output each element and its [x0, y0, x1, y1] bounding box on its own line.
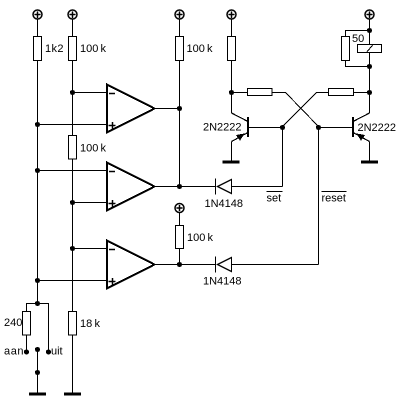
- wire: R2 to R5 divider: [72, 61, 74, 136]
- svg-text:100 k: 100 k: [187, 43, 214, 55]
- wire: switch pole to ground: [37, 350, 39, 393]
- wire: V+ B to R2: [72, 19, 74, 36]
- wire: V+ C to R3: [179, 19, 181, 36]
- resistor R3 100k: [176, 37, 184, 61]
- wire: op3 output stub: [155, 264, 180, 266]
- wire: relay to Q2 collector: [369, 53, 371, 114]
- wire: R9 240 to aan contact: [26, 335, 28, 352]
- label reset with overline: [322, 192, 347, 205]
- wire: Rh1 right lead: [272, 92, 286, 94]
- wire: op2 minus input row: [38, 170, 108, 172]
- wire: cross diagonal right-to-left: [283, 93, 317, 127]
- transistor Q2 2N2222: [353, 113, 370, 161]
- wire: output rail: [179, 61, 181, 187]
- svg-text:1N4148: 1N4148: [203, 276, 242, 288]
- svg-text:240: 240: [4, 317, 22, 329]
- label set with overline: [267, 192, 283, 205]
- node: op1 minus junction: [70, 90, 75, 95]
- node: Q1 collector junction: [229, 90, 234, 95]
- resistor R2 100k: [69, 37, 77, 61]
- wire: switch feed split left: [27, 304, 38, 312]
- node: relay bottom junction: [367, 64, 372, 69]
- wire: op2 plus input row: [73, 202, 108, 204]
- wire: V+ A to R1: [37, 19, 39, 36]
- node: op2 output junction: [177, 184, 182, 189]
- node: Q2 base junction: [316, 125, 321, 130]
- node: op2 plus junction: [70, 200, 75, 205]
- wire: V+ D to R4: [231, 19, 233, 36]
- svg-text:100 k: 100 k: [80, 143, 107, 155]
- svg-text:1k2: 1k2: [45, 43, 64, 55]
- node: op3 minus junction: [70, 246, 75, 251]
- node: Q2 collector junction: [367, 90, 372, 95]
- op-amp U1: [107, 85, 155, 133]
- power symbol V+ B: [68, 10, 77, 19]
- wire: set vertical: [282, 128, 284, 187]
- wire: op2 output stub: [155, 186, 180, 188]
- resistor R8 18k: [69, 312, 77, 336]
- wire: op1 output stub: [155, 108, 180, 110]
- wire: left sense rail: [37, 61, 39, 304]
- node: Q1 base junction: [280, 125, 285, 130]
- wire: D1 to set corner: [232, 186, 283, 188]
- svg-text:aan: aan: [4, 346, 24, 358]
- wire: divider rail mid: [72, 159, 74, 312]
- svg-text:set: set: [267, 193, 282, 205]
- svg-text:uit: uit: [51, 346, 63, 358]
- resistor R4: [228, 37, 236, 61]
- svg-text:2N2222: 2N2222: [203, 122, 242, 134]
- resistor Rh2 cross-coupling: [329, 89, 354, 96]
- node: op3 output junction: [177, 262, 182, 267]
- resistor R9 240: [23, 312, 31, 336]
- wire: op1 minus input row: [73, 92, 108, 94]
- svg-text:100 k: 100 k: [187, 232, 214, 244]
- wire: node op3 out to D2: [180, 264, 216, 266]
- resistor R10 50: [342, 37, 350, 61]
- ground Q2: [361, 161, 378, 164]
- power symbol V+ E: [365, 10, 374, 19]
- wire: D2 to reset corner: [232, 264, 319, 266]
- svg-text:1N4148: 1N4148: [205, 198, 244, 210]
- node: op1 plus junction: [35, 122, 40, 127]
- svg-text:reset: reset: [322, 193, 346, 205]
- wire: op1 plus input row: [38, 124, 108, 126]
- diode D2 1N4148: [216, 257, 232, 273]
- resistor Rh1 cross-coupling: [248, 89, 273, 96]
- switch S1 pole top: [35, 347, 40, 352]
- wire: R8 18k to ground: [72, 335, 74, 393]
- wire: V+ F to R7: [179, 213, 181, 226]
- wire: reset vertical: [318, 128, 320, 265]
- op-amp U3: [107, 241, 155, 289]
- op-amp U2: [107, 163, 155, 211]
- switch S1 pole bottom: [35, 370, 40, 375]
- svg-text:50: 50: [352, 33, 364, 45]
- transistor Q1 2N2222: [232, 113, 249, 161]
- node: op1 output junction: [177, 106, 182, 111]
- power symbol V+ A: [33, 10, 42, 19]
- wire: V+ E down right rail: [369, 19, 371, 44]
- node: op2 minus junction: [35, 168, 40, 173]
- wire: Rh2 right lead: [354, 92, 370, 94]
- wire: Q1 collector node to Rh1: [232, 92, 248, 94]
- wire: relay branch top: [346, 31, 370, 37]
- wire: Q2 base: [319, 127, 353, 129]
- wire: node out to D1: [180, 186, 216, 188]
- wire: R7 to node op3 out: [179, 249, 181, 265]
- wire: Q1 base: [249, 127, 283, 129]
- wire: op3 minus input row: [73, 248, 108, 250]
- node: switch feed junction: [35, 301, 40, 306]
- diode D1 1N4148: [216, 179, 232, 195]
- ground 18k: [64, 393, 81, 396]
- ground Q1: [223, 161, 240, 164]
- wire: relay branch bottom: [346, 61, 370, 67]
- wire: R4 to Q1 collector node: [231, 61, 233, 114]
- svg-text:100 k: 100 k: [80, 43, 107, 55]
- wire: cross diagonal left-to-right: [286, 93, 319, 127]
- power symbol V+ C: [175, 10, 184, 19]
- resistor R1 1k2: [34, 37, 42, 61]
- wire: Rh2 left lead: [317, 92, 329, 94]
- svg-text:2N2222: 2N2222: [358, 122, 397, 134]
- resistor R5 100k: [69, 136, 77, 160]
- svg-text:18 k: 18 k: [80, 318, 100, 330]
- node: op3 plus junction: [35, 278, 40, 283]
- wire: switch feed split right: [38, 304, 49, 352]
- relay K1 coil: [358, 44, 382, 53]
- ground switch: [29, 393, 46, 396]
- node: relay top junction: [367, 28, 372, 33]
- power symbol V+ F: [175, 204, 184, 213]
- switch S1 aan contact: [24, 349, 29, 354]
- switch S1 uit contact: [46, 349, 51, 354]
- power symbol V+ D: [227, 10, 236, 19]
- wire: op3 plus input row: [38, 280, 108, 282]
- resistor R7 100k: [176, 226, 184, 249]
